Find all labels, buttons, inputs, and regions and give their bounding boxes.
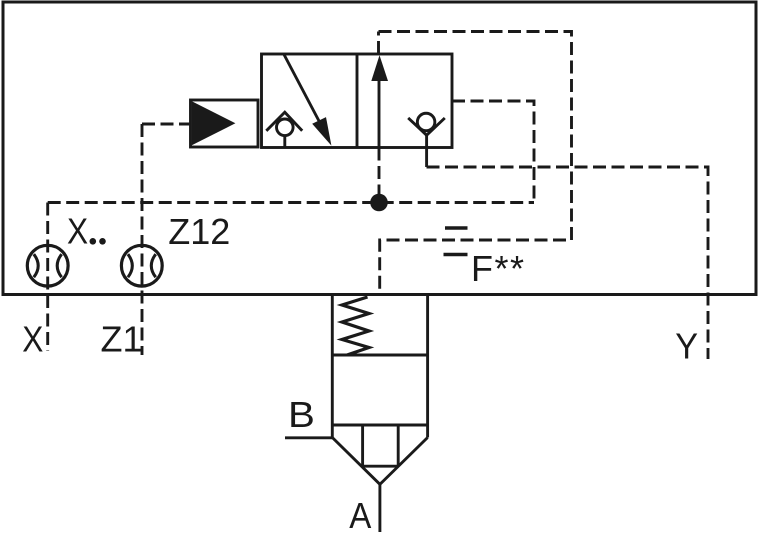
cartridge poppet bottom: [363, 465, 399, 468]
label B: [288, 395, 315, 436]
cartridge poppet left side: [361, 425, 364, 466]
cartridge spring chamber bottom line: [332, 354, 427, 357]
left check valve stem: [283, 136, 286, 148]
left check valve ball: [277, 119, 294, 136]
svg-text:Y: Y: [675, 327, 698, 367]
wire: Z1 vertical line: [141, 124, 144, 355]
right check valve stem: [425, 135, 428, 167]
right check valve ball: [417, 113, 435, 131]
label A: [349, 497, 371, 537]
wire: valve bottom to node: [378, 148, 381, 203]
wire: top loop to cartridge spring chamber: [379, 32, 572, 295]
port X.. coupling right arc: [57, 254, 61, 277]
right check valve seat V: [408, 118, 445, 135]
cover plate frame: [3, 2, 756, 295]
cartridge seat top line: [332, 424, 427, 427]
right position up-arrow shaft: [378, 80, 381, 148]
svg-text:A: A: [349, 497, 371, 537]
label Y: [675, 327, 698, 367]
wire: port A line: [378, 484, 381, 532]
cartridge right seat diagonal: [380, 438, 428, 485]
cartridge left seat diagonal: [332, 438, 380, 485]
cartridge spring: [342, 297, 369, 355]
left position diagonal flow arrow shaft: [284, 55, 319, 122]
svg-text:B: B: [288, 395, 315, 436]
directional valve body: [262, 54, 453, 148]
wire: port B line: [285, 436, 332, 439]
wire: node line X to right riser: [48, 201, 534, 204]
cartridge left side: [331, 296, 334, 438]
label X..: [67, 212, 88, 252]
svg-text:X: X: [22, 320, 43, 360]
label X: [22, 320, 43, 360]
pilot actuator triangle: [192, 101, 236, 145]
wire: pilot supply from Z1: [142, 123, 191, 126]
port X.. coupling left arc: [34, 254, 38, 277]
wire: X vertical line: [46, 203, 49, 352]
left check valve roof: [266, 112, 302, 131]
right position up arrowhead: [371, 55, 388, 81]
cartridge right side: [426, 296, 429, 438]
orifice F** lower bar: [444, 253, 468, 256]
svg-text:Z1: Z1: [101, 319, 143, 360]
svg-text:Z12: Z12: [168, 211, 230, 252]
svg-text:F**: F**: [471, 248, 526, 289]
cartridge poppet right side: [397, 425, 400, 466]
pilot actuator box: [191, 100, 259, 147]
port Z12 measuring coupling circle: [121, 245, 162, 286]
orifice F** upper bar: [445, 226, 468, 229]
wire: riser to valve right port: [452, 101, 534, 203]
junction node: [370, 194, 388, 212]
left position diagonal arrowhead: [312, 117, 331, 146]
port Z12 coupling right arc: [151, 254, 155, 277]
valve position divider: [356, 54, 359, 148]
port X.. measuring coupling circle: [27, 245, 68, 286]
port Z12 coupling left arc: [128, 254, 132, 277]
wire: drain to Y: [427, 167, 709, 359]
svg-text:X: X: [67, 212, 88, 252]
wire: valve top stub: [377, 32, 380, 55]
